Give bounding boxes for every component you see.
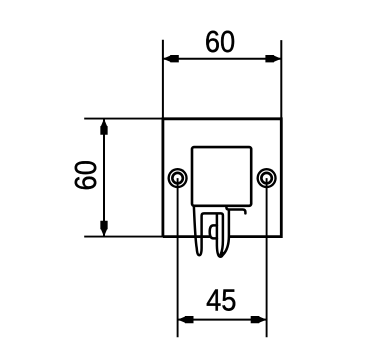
- top dimension arrow left: [163, 55, 179, 62]
- top dimension line: [163, 58, 281, 60]
- left dimension extension line top: [84, 118, 166, 120]
- screw right: [257, 168, 277, 188]
- hook stem right edge curving to tip: [221, 210, 229, 257]
- hook bump on prong2: [210, 225, 217, 238]
- left dimension arrow down: [100, 221, 107, 237]
- left dimension arrow up: [100, 119, 107, 135]
- hook prong2 inner edge V3 with bowl: [217, 214, 223, 257]
- svg-text:60: 60: [69, 160, 103, 190]
- top dimension extension line right: [280, 40, 282, 117]
- left dimension extension line bottom: [84, 236, 167, 238]
- hook prong1 + top connector + stem left edge: [194, 207, 223, 255]
- top dimension extension line left: [162, 40, 164, 118]
- inner square boss: [192, 147, 251, 206]
- wall plate square: [163, 119, 281, 237]
- bottom dimension extension line left from screw: [177, 178, 179, 337]
- bottom dimension arrow right: [251, 316, 267, 323]
- top dimension arrow right: [265, 55, 281, 62]
- bottom dimension extension line right from screw: [266, 178, 268, 337]
- svg-text:45: 45: [206, 284, 236, 318]
- hook riser shoulder and lip: [226, 207, 245, 214]
- screw left: [168, 168, 188, 188]
- bottom dimension arrow left: [178, 316, 194, 323]
- svg-text:60: 60: [205, 25, 235, 59]
- bottom dimension line: [178, 319, 267, 321]
- left dimension line: [103, 119, 105, 237]
